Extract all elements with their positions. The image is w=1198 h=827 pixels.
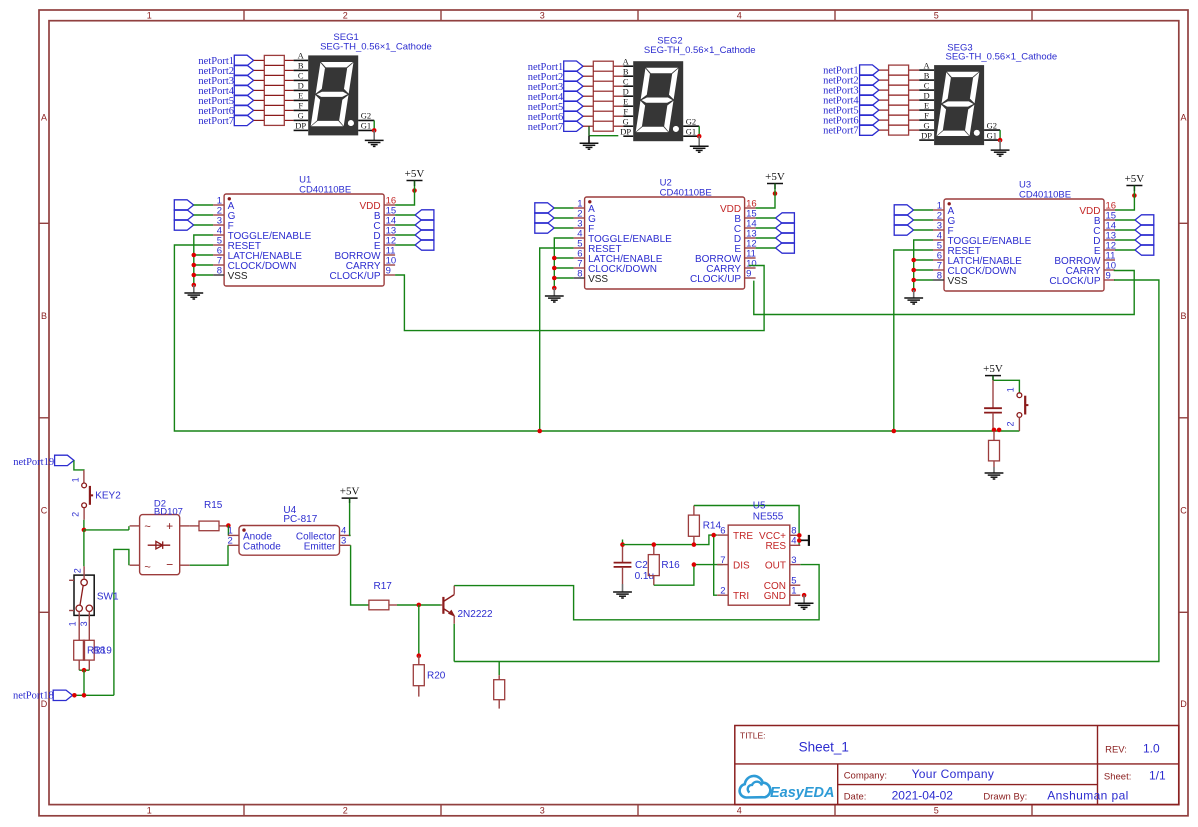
ground U5 [803,595,805,603]
svg-text:B: B [924,70,930,80]
svg-text:3: 3 [79,621,89,626]
resistor array SEG1 [254,59,265,61]
svg-text:7: 7 [720,555,725,566]
svg-text:3: 3 [791,555,796,566]
svg-text:F: F [298,101,303,111]
junction SEG2 G1 [697,134,702,139]
ground C2 [622,584,624,592]
svg-text:F: F [924,110,929,120]
resistor R15 [190,525,199,527]
svg-text:+5V: +5V [765,171,785,183]
U2 left pins 1-8 [574,207,585,209]
SEG2 pins G2 G1 [683,125,699,127]
wire DP to ground SEG2 [588,126,590,136]
svg-text:RES: RES [765,541,786,552]
svg-text:R20: R20 [427,671,446,682]
wire U1 pin4 ground column [194,235,213,285]
svg-text:NE555: NE555 [753,511,784,522]
ground U1 [193,285,195,293]
wire VCC to R14 top [694,506,799,545]
junction SEG3 G1 [998,138,1003,143]
svg-text:5: 5 [934,11,939,21]
junctions netPort18 [72,693,77,698]
wire KEY2 pin2 down [83,520,85,530]
svg-text:D: D [924,90,930,100]
resistor array SEG2 [583,65,593,67]
net port flag netPort18 [53,690,72,700]
svg-text:G: G [623,116,629,126]
junctions U1 ground column [192,253,197,258]
wire +5V to U4 collector [350,503,351,535]
push button top right [1017,393,1022,398]
svg-text:9: 9 [746,269,751,280]
U1 output port flags pins 15-12 [415,210,434,220]
svg-text:DP: DP [921,130,932,140]
svg-text:+5V: +5V [340,486,360,498]
svg-text:2N2222: 2N2222 [458,609,493,620]
junction GND pin [802,593,807,598]
U2 input port flags pins 1-3 [535,203,554,213]
svg-text:A: A [1180,113,1186,123]
junction R15 U4 [226,523,231,528]
svg-text:DP: DP [620,126,631,136]
svg-text:VSS: VSS [948,276,968,287]
SEG3 net port flags [860,65,879,75]
net port flag netPort19 [55,455,74,465]
wire netPort18 row [73,694,114,696]
junction bus U3 [892,429,897,434]
svg-text:1.0: 1.0 [1143,742,1160,756]
capacitor C top right [992,380,994,408]
resistor array SEG3 [879,69,889,71]
svg-text:B: B [623,66,629,76]
svg-text:netPort7: netPort7 [823,126,859,137]
switch SW1 [74,575,94,615]
wire SEG2 G2-G1 [698,126,700,136]
resistor R20 [418,656,420,665]
ground SEG2 DP [588,136,590,144]
junction R20 [417,653,422,658]
junction R14 bottom [692,542,697,547]
svg-text:2: 2 [72,568,82,573]
wire KEY2 to bridge D2 [84,529,129,531]
svg-text:R16: R16 [661,560,680,571]
svg-text:2: 2 [343,806,348,816]
svg-text:DP: DP [295,121,306,131]
svg-text:A: A [924,60,931,70]
svg-text:+5V: +5V [983,363,1003,375]
svg-text:Drawn By:: Drawn By: [983,792,1027,803]
svg-text:2: 2 [228,536,233,547]
junctions on bus at capacitor [992,428,997,433]
svg-text:TRI: TRI [733,591,749,602]
op-amp U3 CD40110BE box [944,199,1104,291]
junction TRE [711,533,716,538]
SEG1 net port flags [234,55,253,65]
svg-text:G2: G2 [361,111,371,121]
svg-text:3: 3 [540,806,545,816]
svg-text:−: − [166,558,173,572]
svg-text:CD40110BE: CD40110BE [660,188,712,199]
svg-text:E: E [924,100,929,110]
svg-text:REV:: REV: [1105,745,1127,756]
svg-text:4: 4 [791,536,796,547]
svg-text:D: D [298,81,304,91]
svg-text:+5V: +5V [405,168,425,180]
junction U1 VDD [412,188,417,193]
display SEG2 SEG-TH_0.56x1_Cathode [623,65,633,67]
svg-text:TITLE:: TITLE: [740,731,766,741]
diode bridge D2 BD107 [140,515,180,575]
wire R15 to U4 anode [227,526,229,536]
svg-text:netPort7: netPort7 [198,116,234,127]
svg-text:G2: G2 [987,120,997,130]
resistor R19 [83,640,94,660]
svg-text:Sheet:: Sheet: [1104,772,1131,783]
wire base node to R20 [418,605,420,656]
junctions U2 ground column [552,256,557,261]
svg-text:+5V: +5V [1125,173,1145,185]
junction SEG1 G1 [372,128,377,133]
svg-text:EasyEDA: EasyEDA [770,785,834,801]
svg-text:OUT: OUT [765,560,786,571]
svg-text:0.1u: 0.1u [635,571,654,582]
ground below pulldown resistor [993,467,995,473]
resistor R14 [693,506,695,516]
resistor R16 [653,545,655,555]
svg-text:B: B [41,311,47,321]
junction bus U2 [537,429,542,434]
svg-text:1: 1 [147,11,152,21]
svg-text:C: C [1180,506,1187,516]
junction KEY2 node [82,528,87,533]
wire U3 pin5 RESET to bus [894,250,933,431]
svg-text:+: + [166,519,173,533]
svg-text:PC-817: PC-817 [283,514,317,525]
svg-text:3: 3 [540,11,545,21]
U1 input port flags pins 1-3 [174,200,193,210]
svg-text:1: 1 [1006,387,1016,392]
wire SEG1 G2-G1 [373,120,375,130]
U3 output port flags pins 15-12 [1135,215,1154,225]
svg-text:4: 4 [737,11,742,21]
svg-text:D: D [623,86,629,96]
svg-text:C: C [298,71,304,81]
svg-text:G: G [924,120,930,130]
svg-text:1: 1 [147,806,152,816]
wire U2 pin5 RESET to bus [540,248,574,431]
U3 input port flags pins 1-3 [894,205,913,215]
svg-text:~: ~ [144,521,150,533]
svg-text:VSS: VSS [228,271,248,282]
display SEG1 SEG-TH_0.56x1_Cathode [294,59,309,61]
svg-text:Cathode: Cathode [243,541,281,552]
svg-text:U5: U5 [753,501,766,512]
svg-text:2: 2 [70,512,80,517]
svg-text:D: D [1180,699,1187,709]
power bar flag at RES [801,539,809,541]
U2 right pins 16-9 [745,207,756,209]
svg-text:R14: R14 [703,521,722,532]
svg-text:netPort18: netPort18 [13,691,54,702]
junction R18 R19 [82,668,87,673]
U1 right pins 16-9 [384,204,395,206]
display SEG3 SEG-TH_0.56x1_Cathode [919,69,934,71]
svg-text:SEG-TH_0.56×1_Cathode: SEG-TH_0.56×1_Cathode [320,42,432,53]
svg-text:VSS: VSS [588,274,608,285]
svg-text:TRE: TRE [733,531,753,542]
svg-text:CLOCK/UP: CLOCK/UP [329,271,380,282]
svg-text:Date:: Date: [844,792,867,803]
svg-text:BD107: BD107 [154,507,183,518]
wire bridge minus to U4 cathode [190,545,228,565]
resistor R18 [74,640,85,660]
junction C2 top [620,542,625,547]
svg-text:C: C [41,506,48,516]
svg-text:1: 1 [791,585,796,596]
svg-text:CD40110BE: CD40110BE [299,185,351,196]
svg-text:Sheet_1: Sheet_1 [799,740,849,755]
svg-text:DIS: DIS [733,560,750,571]
SEG3 pins G2 G1 [984,129,1000,131]
resistor pulldown below bus [993,431,995,440]
ground U3 [913,290,915,298]
capacitor C2 [622,540,624,545]
svg-text:SEG-TH_0.56×1_Cathode: SEG-TH_0.56×1_Cathode [946,51,1058,62]
SEG2 net port flags [564,61,583,71]
transistor Q1 2N2222 [442,597,444,614]
junction U3 VDD [1132,193,1137,198]
svg-text:G1: G1 [686,126,696,136]
U3 left pins 1-8 [933,209,944,211]
EasyEDA logo [740,776,771,798]
wire emitter down to output net [453,624,455,662]
wire +5V to U3 pin16 [1115,191,1134,210]
svg-text:R15: R15 [204,500,223,511]
svg-text:G1: G1 [987,130,997,140]
U3 right pins 16-9 [1104,209,1115,211]
svg-text:SW1: SW1 [97,592,119,603]
timer U5 NE555 [728,525,790,605]
svg-text:F: F [623,106,628,116]
svg-text:CLOCK/UP: CLOCK/UP [690,274,741,285]
wire +5V to U1 pin16 [395,186,414,205]
svg-text:B: B [298,61,304,71]
svg-text:2: 2 [343,11,348,21]
svg-text:1: 1 [70,477,80,482]
svg-text:2: 2 [1006,421,1016,426]
ground SEG1 [373,130,375,140]
wire R17 to base [397,604,441,606]
svg-text:CD40110BE: CD40110BE [1019,190,1071,201]
wire threshold net [623,535,718,545]
key KEY2 [83,470,85,483]
wire collector to 555 OUT [454,565,819,620]
svg-text:8: 8 [217,266,222,277]
svg-text:9: 9 [1106,271,1111,282]
svg-text:netPort19: netPort19 [13,457,54,468]
wire down to netPort18 [83,670,85,695]
wire +5V to capacitor and button [993,380,1019,392]
wire KEY2 node down to SW1 [83,530,85,566]
ground SEG2 [698,136,700,146]
svg-text:R17: R17 [374,581,393,592]
U2 output port flags pins 15-12 [776,213,795,223]
svg-text:A: A [41,113,47,123]
SEG1 pins G2 G1 [358,119,374,121]
wire SEG3 G2-G1 [999,130,1001,140]
svg-text:Your Company: Your Company [912,767,995,781]
U1 left pins 1-8 [213,204,224,206]
svg-text:Company:: Company: [844,771,887,782]
svg-text:E: E [623,96,628,106]
svg-text:2021-04-02: 2021-04-02 [892,789,954,803]
wire U3 CARRY to U2 CLOCK/UP [754,271,1134,315]
svg-text:3: 3 [341,536,346,547]
svg-text:1: 1 [68,621,78,626]
svg-text:8: 8 [577,269,582,280]
svg-text:9: 9 [386,266,391,277]
wire U2 pin4 ground column [554,238,573,288]
op-amp U1 CD40110BE box [224,194,384,286]
svg-text:Emitter: Emitter [304,541,336,552]
svg-text:CLOCK/UP: CLOCK/UP [1049,276,1100,287]
svg-text:B: B [1180,311,1186,321]
svg-text:C: C [623,76,629,86]
svg-text:A: A [623,56,630,66]
svg-text:G: G [298,111,304,121]
svg-text:netPort7: netPort7 [528,122,564,133]
svg-text:C: C [924,80,930,90]
op-amp U2 CD40110BE box [585,197,745,289]
wire +5V to U2 pin16 [756,189,775,208]
title block [735,726,1179,805]
wire U3 CLOCK/UP to 555 output net [454,280,1159,662]
wire R16 bottom to DIS [654,565,723,586]
wire R18 R19 join [79,669,89,671]
junction U2 VDD [773,191,778,196]
svg-text:6: 6 [720,525,725,536]
optocoupler U4 PC-817 [239,526,340,556]
resistor R17 [369,600,389,610]
junction R16 top [652,542,657,547]
svg-text:~: ~ [144,562,150,574]
svg-text:8: 8 [937,271,942,282]
wire TRE to TRI [714,535,718,595]
junction base node [417,603,422,608]
junctions U3 ground column [911,258,916,263]
ground U2 [553,288,555,296]
svg-text:1/1: 1/1 [1149,769,1166,783]
svg-text:4: 4 [737,806,742,816]
wire U4 emitter to R17 [351,545,369,605]
wire U3 pin4 ground column [914,240,933,290]
svg-text:E: E [298,91,303,101]
wire U1 pin5 RESET to +5V bus [174,245,1019,431]
wire U2 CARRY to U1 CLOCK/UP [395,266,764,331]
svg-text:2: 2 [720,585,725,596]
svg-text:A: A [298,51,305,61]
svg-text:G2: G2 [686,116,696,126]
svg-text:GND: GND [764,591,786,602]
svg-text:C2: C2 [635,560,648,571]
junction DIS [692,562,697,567]
svg-text:KEY2: KEY2 [95,491,121,502]
svg-text:SEG-TH_0.56×1_Cathode: SEG-TH_0.56×1_Cathode [644,45,756,56]
resistor R21 unlabeled [498,662,500,676]
junctions VCC RES [797,533,802,538]
svg-text:Anshuman pal: Anshuman pal [1047,789,1129,803]
svg-text:R19: R19 [94,646,113,657]
svg-text:G1: G1 [361,121,371,131]
svg-text:5: 5 [934,806,939,816]
wire netPort19 to KEY2 [74,460,84,470]
ground SEG3 [999,140,1001,150]
wire bridge lower-left to netPort18 riser [114,549,129,695]
